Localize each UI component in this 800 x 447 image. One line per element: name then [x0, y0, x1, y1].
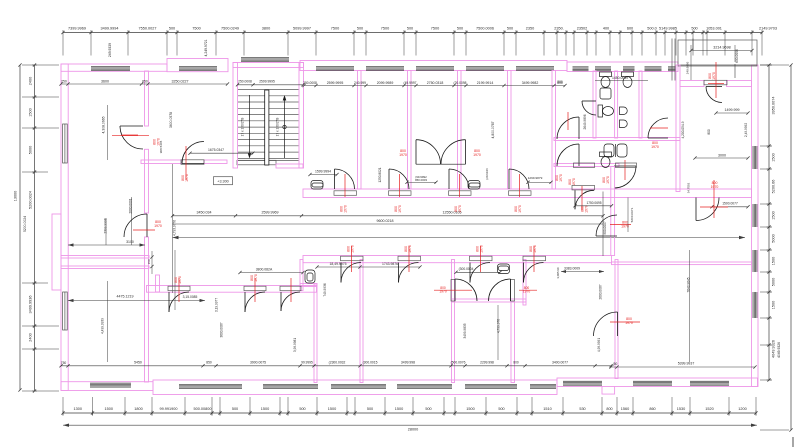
window top x179	[179, 67, 217, 71]
svg-text:(20.9946: (20.9946	[485, 168, 489, 180]
door	[441, 140, 466, 165]
corridor divider wall	[611, 167, 615, 256]
svg-text:850: 850	[142, 80, 148, 84]
svg-text:2400: 2400	[29, 333, 33, 341]
door	[120, 126, 143, 149]
corridor long line	[173, 237, 746, 239]
door sill	[334, 191, 357, 196]
svg-text:4,799.976: 4,799.976	[496, 319, 500, 333]
svg-text:250.0008: 250.0008	[238, 80, 252, 84]
svg-text:2400: 2400	[29, 77, 33, 85]
svg-text:500: 500	[299, 407, 305, 411]
svg-text:600.0006: 600.0006	[735, 49, 739, 63]
svg-text:1970: 1970	[439, 289, 447, 293]
door	[696, 198, 719, 221]
room2 bottom wall	[61, 256, 149, 259]
partition x314	[314, 284, 317, 383]
door label 800/1970	[625, 317, 633, 325]
door label 800/1970	[651, 141, 659, 149]
entry porch outline	[672, 39, 757, 81]
stairwell wall left	[233, 63, 238, 169]
door	[582, 101, 596, 115]
bottom band wall y299	[452, 299, 527, 302]
top band partition x457.5	[458, 71, 462, 190]
svg-text:500: 500	[407, 27, 413, 31]
entry dim 1499.999	[716, 112, 748, 114]
svg-text:7643.9645: 7643.9645	[687, 277, 691, 292]
svg-text:1500: 1500	[105, 407, 113, 411]
door label 800/1970	[711, 181, 719, 189]
window bottom x331	[331, 385, 386, 389]
svg-text:13000: 13000	[14, 191, 18, 202]
svg-text:3000: 3000	[718, 154, 726, 158]
wall x144 lower segment	[145, 237, 149, 382]
svg-text:1520: 1520	[705, 407, 713, 411]
svg-text:1500.0077: 1500.0077	[722, 202, 738, 206]
svg-text:800: 800	[707, 129, 711, 135]
svg-text:2000.0001: 2000.0001	[129, 198, 133, 213]
bath block wall y137	[554, 138, 680, 141]
svg-text:1500: 1500	[466, 407, 474, 411]
svg-text:2299.998: 2299.998	[480, 361, 494, 365]
svg-text:5399.9937: 5399.9937	[678, 362, 695, 366]
door label 800/1970	[153, 138, 161, 146]
partition x360	[360, 260, 363, 383]
svg-text:1743.9876: 1743.9876	[382, 262, 398, 266]
svg-text:2599.9995: 2599.9995	[327, 81, 344, 85]
window bottom right x633	[633, 381, 672, 385]
svg-text:500: 500	[691, 27, 697, 31]
svg-text:3214.9698: 3214.9698	[713, 46, 730, 50]
door sill	[449, 191, 472, 196]
svg-text:1499.999: 1499.999	[725, 108, 740, 112]
svg-text:1970: 1970	[473, 153, 481, 157]
svg-text:1500: 1500	[772, 211, 776, 219]
svg-text:1970: 1970	[712, 72, 716, 80]
window bottom x397	[397, 385, 452, 389]
window top x466	[466, 67, 504, 71]
window bottom x465	[465, 385, 517, 389]
svg-text:2350: 2350	[526, 27, 534, 31]
door label 800/1970	[621, 221, 629, 229]
window bottom right x690	[690, 381, 729, 385]
svg-text:250.0008: 250.0008	[303, 81, 317, 85]
svg-text:3450.034: 3450.034	[197, 211, 212, 215]
svg-text:500: 500	[425, 407, 431, 411]
door label 800/1970	[404, 245, 412, 253]
wc toilet	[600, 72, 612, 88]
door top band x509	[509, 169, 529, 189]
svg-text:9600.0218: 9600.0218	[377, 219, 394, 223]
svg-text:(50: (50	[613, 362, 618, 366]
svg-text:600: 600	[627, 27, 633, 31]
bottom band upper dims	[240, 272, 303, 274]
svg-text:5000: 5000	[29, 146, 33, 154]
svg-text:1970: 1970	[399, 153, 407, 157]
svg-text:28000: 28000	[408, 428, 419, 432]
door	[557, 117, 579, 139]
svg-text:800: 800	[557, 80, 563, 84]
svg-text:800: 800	[513, 361, 519, 365]
svg-text:7500: 7500	[431, 27, 439, 31]
door sill	[398, 256, 421, 261]
door sill	[341, 256, 364, 261]
top band partition x552	[552, 71, 556, 190]
wc wall x639	[639, 71, 642, 138]
door	[455, 279, 477, 301]
staircase treads	[238, 90, 299, 161]
svg-text:500: 500	[232, 407, 238, 411]
level label +3.300	[214, 177, 233, 185]
vestibule north wall right part	[727, 81, 752, 87]
svg-text:1500: 1500	[395, 407, 403, 411]
wall y160 east segment	[204, 160, 227, 164]
svg-text:7550.0027: 7550.0027	[139, 27, 157, 31]
door label 800/1970	[529, 245, 537, 253]
vestibule north wall left part	[680, 81, 704, 87]
svg-text:7399.9969: 7399.9969	[68, 27, 86, 31]
svg-text:1970: 1970	[559, 174, 563, 182]
door sill	[168, 286, 190, 291]
dimension line vertical	[768, 65, 770, 380]
svg-text:1970: 1970	[584, 205, 588, 213]
svg-text:1299.9879: 1299.9879	[528, 176, 543, 180]
svg-text:3,15.0085: 3,15.0085	[183, 295, 198, 299]
small window top x572.5	[573, 67, 589, 71]
svg-text:2,49.9992: 2,49.9992	[744, 123, 748, 137]
window bottom x530	[530, 385, 556, 389]
svg-text:(49.9997: (49.9997	[403, 81, 416, 85]
svg-text:950.0003: 950.0003	[415, 178, 427, 182]
exterior wall top right	[567, 62, 678, 72]
window top x316	[316, 67, 354, 71]
door label 800/1970	[602, 176, 610, 184]
door sill	[523, 256, 546, 261]
door sill	[389, 191, 412, 196]
stair bay window	[241, 58, 289, 62]
svg-text:4,200.054-9: 4,200.054-9	[681, 121, 685, 138]
svg-text:1970: 1970	[533, 245, 537, 253]
corridor jog x300	[300, 260, 303, 291]
svg-text:1500: 1500	[29, 108, 33, 116]
page mark bottom right	[792, 437, 794, 447]
top band room dims	[304, 85, 565, 87]
door label 800/1970	[581, 205, 589, 213]
hall door sill	[181, 160, 204, 165]
svg-text:3499.9936: 3499.9936	[29, 296, 33, 314]
corridor north wall	[303, 189, 752, 198]
exterior wall stair bay	[233, 63, 304, 68]
exterior wall right	[752, 65, 759, 387]
small window top x668	[668, 67, 676, 71]
svg-text:2649.9896: 2649.9896	[583, 114, 587, 129]
exterior wall top-left	[61, 64, 167, 71]
svg-text:500: 500	[357, 27, 363, 31]
svg-text:(300.0015: (300.0015	[363, 361, 378, 365]
svg-text:3,99.9981: 3,99.9981	[293, 338, 297, 352]
window top x366	[366, 67, 404, 71]
svg-text:240.999: 240.999	[354, 81, 366, 85]
svg-text:1200: 1200	[738, 407, 746, 411]
door sill	[574, 163, 595, 168]
window top x91	[91, 67, 130, 71]
twin basins	[604, 144, 627, 157]
partition x523	[523, 260, 526, 306]
corridor south wall low part x146-316	[147, 286, 317, 293]
window left lower (frame)	[63, 292, 68, 330]
svg-text:2750.0318: 2750.0318	[427, 81, 444, 85]
window top x516	[516, 67, 554, 71]
svg-text:(2300.0032: (2300.0032	[329, 361, 346, 365]
door	[706, 87, 722, 103]
svg-text:1970: 1970	[651, 145, 659, 149]
left overall dim 13000	[19, 65, 21, 390]
svg-text:500.00800: 500.00800	[194, 407, 212, 411]
extension lines bottom	[62, 397, 64, 416]
corridor south wall east thin part	[612, 262, 752, 265]
svg-text:7500: 7500	[381, 27, 389, 31]
partition x511	[511, 302, 515, 383]
svg-text:1750.0695: 1750.0695	[586, 201, 601, 205]
svg-text:1970: 1970	[154, 224, 162, 228]
svg-text:99.9995: 99.9995	[301, 361, 313, 365]
svg-text:2199.9914: 2199.9914	[477, 81, 494, 85]
svg-text:4049.9326: 4049.9326	[772, 340, 776, 358]
partition x451	[452, 260, 455, 383]
svg-text:4,800.0787: 4,800.0787	[491, 121, 495, 138]
svg-text:500: 500	[507, 27, 513, 31]
door label 800/1970	[514, 205, 522, 213]
door	[614, 166, 636, 188]
door	[594, 312, 618, 336]
svg-text:3800.082A: 3800.082A	[256, 267, 273, 271]
exterior wall bottom right	[557, 378, 758, 387]
svg-text:3499.998: 3499.998	[401, 361, 415, 365]
svg-text:1970: 1970	[254, 274, 258, 282]
bath room dim	[595, 80, 648, 82]
window bottom x179	[179, 385, 242, 389]
door bottom band x470	[470, 263, 490, 283]
door sill	[616, 163, 637, 168]
stair hall door sill	[237, 160, 276, 165]
niche bottom wall	[300, 284, 317, 287]
door sill	[470, 256, 493, 261]
wc wall x593	[593, 71, 596, 138]
svg-text:500: 500	[498, 407, 504, 411]
window bottom left seg	[90, 383, 131, 387]
door bottom band x523.5	[524, 263, 544, 283]
small fixture room x509	[498, 264, 510, 274]
exterior wall top second segment	[167, 59, 228, 72]
svg-text:500.0: 500.0	[647, 27, 657, 31]
window bottom right x563	[563, 381, 602, 385]
svg-text:(500.0076: (500.0076	[451, 361, 466, 365]
door in partition x513	[511, 280, 515, 302]
door	[281, 292, 300, 311]
svg-text:249.9339: 249.9339	[108, 43, 112, 57]
door label 800/1970	[250, 274, 258, 282]
svg-text:800: 800	[606, 407, 612, 411]
svg-text:750: 750	[61, 361, 67, 365]
door bottom band x398.5	[399, 263, 419, 283]
door label 800/1970	[476, 245, 484, 253]
dimension line	[63, 412, 756, 414]
small window top x644.5	[645, 67, 662, 71]
small window top x623	[623, 67, 635, 71]
corridor south wall x303-611	[303, 256, 612, 263]
svg-text:99.991900: 99.991900	[160, 407, 178, 411]
door label 800/1970	[340, 205, 348, 213]
svg-text:1970: 1970	[343, 205, 347, 213]
left wall protrusion	[52, 214, 61, 290]
door	[489, 279, 511, 301]
door sill	[509, 191, 532, 196]
svg-text:1970: 1970	[711, 185, 719, 189]
exterior wall left	[61, 64, 68, 391]
room1 interior door dim	[310, 174, 337, 176]
door label 800/1970	[473, 149, 481, 157]
svg-text:3,005.99: 3,005.99	[556, 267, 560, 279]
exterior wall top middle	[300, 61, 567, 71]
svg-text:500: 500	[169, 27, 175, 31]
svg-text:3499.9994: 3499.9994	[101, 27, 119, 31]
svg-text:2149.9703: 2149.9703	[759, 27, 777, 31]
svg-text:150: 150	[147, 259, 151, 264]
svg-text:3,19.9977: 3,19.9977	[215, 298, 219, 312]
door label 800/1970	[174, 276, 182, 284]
door	[182, 142, 204, 164]
svg-text:1970: 1970	[518, 205, 522, 213]
stairwell wall right	[299, 63, 304, 169]
wc wall x614	[615, 71, 618, 138]
stair center rail	[265, 90, 269, 165]
small window top x595	[595, 67, 611, 71]
window right y250	[753, 250, 757, 272]
wall x144 upper segment	[145, 71, 149, 126]
bath sink small	[600, 88, 611, 99]
door	[596, 215, 617, 236]
top band partition x357.5	[358, 71, 362, 190]
door	[575, 190, 594, 209]
svg-text:1500: 1500	[261, 407, 269, 411]
door label 800/1970	[394, 205, 402, 213]
svg-text:4,499.9939: 4,499.9939	[101, 318, 105, 334]
svg-text:1970: 1970	[606, 176, 610, 184]
bottom rooms floor dim row	[61, 365, 611, 367]
svg-text:7500.0006: 7500.0006	[476, 27, 494, 31]
niche basin	[305, 270, 315, 283]
window right y204	[753, 204, 757, 227]
corridor dim line 1	[173, 215, 604, 217]
svg-text:1970: 1970	[178, 276, 182, 284]
window left upper (frame)	[63, 124, 68, 163]
svg-text:3950.0074: 3950.0074	[772, 97, 776, 115]
bath block wall y163	[554, 164, 619, 167]
svg-text:1970: 1970	[458, 205, 462, 213]
bath block east wall x676	[676, 65, 680, 192]
stair walk line with arrow	[249, 95, 251, 156]
stairwell south stub	[276, 164, 303, 168]
svg-text:34.7092: 34.7092	[687, 182, 691, 193]
door label 800/1970	[154, 220, 162, 228]
svg-text:2350.: 2350.	[554, 27, 564, 31]
door	[416, 140, 441, 165]
door sill	[572, 185, 595, 190]
svg-text:1250.8021: 1250.8021	[378, 167, 382, 182]
svg-text:900.0007: 900.0007	[603, 221, 607, 235]
svg-text:400: 400	[603, 27, 609, 31]
svg-text:1510: 1510	[543, 407, 551, 411]
svg-text:1970: 1970	[523, 289, 531, 293]
svg-text:1500: 1500	[772, 301, 776, 309]
door label 800/1970	[399, 149, 407, 157]
svg-text:4475.1219: 4475.1219	[117, 295, 134, 299]
door sill	[244, 286, 266, 291]
extension lines from top dim to walls	[62, 35, 64, 56]
svg-text:2600.0087: 2600.0087	[599, 284, 603, 299]
door label 800/1970	[555, 174, 563, 182]
door bottom band x341	[341, 263, 361, 283]
svg-text:3100: 3100	[126, 240, 134, 244]
svg-text:1970: 1970	[479, 245, 483, 253]
window bottom x263	[263, 385, 318, 389]
door top band x334.5	[335, 169, 355, 189]
svg-text:4049.9326: 4049.9326	[777, 342, 781, 358]
door	[245, 292, 265, 312]
room3 top wall	[61, 266, 149, 269]
svg-text:5450: 5450	[134, 361, 142, 365]
door sill	[704, 80, 727, 85]
svg-text:500: 500	[457, 27, 463, 31]
svg-text:18,49.9975: 18,49.9975	[330, 262, 347, 266]
svg-text:1500: 1500	[772, 257, 776, 265]
svg-text:250: 250	[61, 80, 67, 84]
bottom entrance step	[602, 386, 615, 394]
door label 800/1970	[181, 174, 189, 182]
svg-text:1560: 1560	[621, 407, 629, 411]
svg-text:+3.300: +3.300	[217, 180, 228, 184]
svg-text:1970: 1970	[156, 138, 160, 146]
dimension line vertical	[34, 65, 36, 391]
svg-text:1800: 1800	[134, 407, 142, 411]
svg-text:3499.9982: 3499.9982	[522, 81, 539, 85]
wc toilet	[622, 72, 634, 88]
svg-text:1300: 1300	[74, 407, 82, 411]
top room basins	[311, 181, 323, 190]
svg-text:1970: 1970	[185, 174, 189, 182]
wall x144 mid segment	[145, 149, 149, 213]
svg-text:5000: 5000	[772, 278, 776, 286]
svg-text:1970: 1970	[572, 178, 576, 186]
svg-text:3900.0075: 3900.0075	[250, 361, 266, 365]
svg-text:3600.0087: 3600.0087	[219, 322, 223, 337]
svg-text:1053.001: 1053.001	[706, 27, 722, 31]
svg-text:500: 500	[367, 407, 373, 411]
svg-text:5000: 5000	[772, 234, 776, 242]
svg-text:5200.0024: 5200.0024	[29, 191, 33, 209]
door label 800/1970	[568, 178, 576, 186]
svg-text:3499.9835: 3499.9835	[463, 323, 467, 338]
stair top dim	[238, 84, 304, 86]
wc toilet	[600, 152, 612, 168]
svg-text:3400.0077: 3400.0077	[552, 361, 568, 365]
top band partition x507.5	[508, 71, 512, 190]
svg-text:1599.9994: 1599.9994	[315, 170, 331, 174]
door	[648, 118, 668, 138]
svg-text:2599.9995: 2599.9995	[259, 80, 275, 84]
svg-text:3600.0578: 3600.0578	[169, 112, 173, 128]
partition x615	[615, 260, 618, 379]
